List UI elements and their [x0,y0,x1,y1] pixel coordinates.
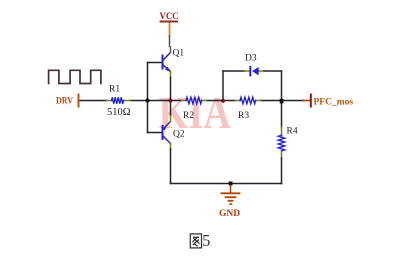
svg-text:VCC: VCC [160,11,179,21]
svg-text:D3: D3 [245,54,257,64]
svg-text:DRV: DRV [56,95,74,106]
svg-text:R2: R2 [183,111,194,121]
svg-text:Q1: Q1 [173,49,185,59]
svg-text:R4: R4 [287,127,298,137]
svg-text:GND: GND [219,209,240,219]
svg-text:510Ω: 510Ω [107,107,131,118]
svg-text:R1: R1 [109,85,120,95]
svg-text:5: 5 [202,231,210,250]
svg-text:R3: R3 [238,111,249,121]
svg-text:PFC_mos: PFC_mos [314,98,354,108]
svg-text:Q2: Q2 [173,130,185,140]
